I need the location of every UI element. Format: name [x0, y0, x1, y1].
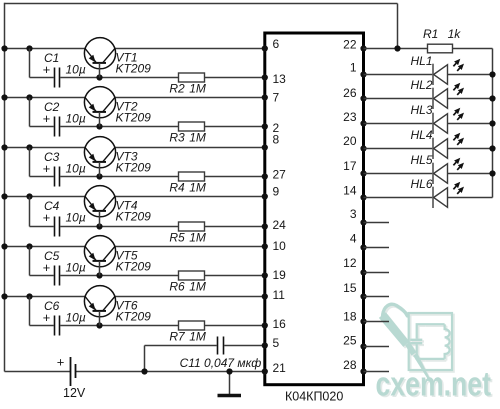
svg-text:1M: 1M: [189, 131, 206, 145]
svg-text:R7: R7: [169, 330, 186, 344]
svg-text:1k: 1k: [448, 27, 462, 41]
svg-text:К04КП020: К04КП020: [285, 390, 343, 404]
svg-text:cxem.net: cxem.net: [376, 366, 492, 404]
svg-text:HL4: HL4: [410, 128, 432, 142]
svg-text:4: 4: [350, 232, 357, 246]
svg-text:10µ: 10µ: [66, 211, 86, 225]
svg-text:10µ: 10µ: [66, 311, 86, 325]
svg-text:С11 0,047 мкф: С11 0,047 мкф: [180, 356, 262, 370]
svg-text:HL5: HL5: [410, 153, 432, 167]
svg-text:16: 16: [273, 317, 287, 331]
svg-text:R5: R5: [169, 231, 185, 245]
svg-text:KT209: KT209: [116, 210, 152, 224]
svg-text:25: 25: [343, 334, 357, 348]
svg-text:5: 5: [273, 336, 280, 350]
svg-text:27: 27: [273, 168, 287, 182]
svg-text:10µ: 10µ: [66, 63, 86, 77]
svg-text:10µ: 10µ: [66, 112, 86, 126]
svg-text:10µ: 10µ: [66, 162, 86, 176]
svg-text:14: 14: [343, 183, 357, 197]
svg-text:1M: 1M: [189, 181, 206, 195]
svg-text:R1: R1: [423, 27, 438, 41]
svg-text:3: 3: [350, 207, 357, 221]
svg-text:24: 24: [273, 218, 287, 232]
svg-text:HL6: HL6: [410, 177, 432, 191]
svg-text:15: 15: [343, 281, 357, 295]
svg-text:11: 11: [273, 288, 286, 302]
svg-text:+: +: [43, 310, 51, 325]
svg-text:9: 9: [273, 184, 280, 198]
svg-text:1M: 1M: [189, 231, 206, 245]
svg-text:8: 8: [273, 132, 280, 146]
svg-text:KT209: KT209: [116, 310, 152, 324]
svg-text:19: 19: [273, 268, 287, 282]
svg-text:28: 28: [343, 358, 357, 372]
svg-text:+: +: [43, 161, 51, 176]
svg-text:HL2: HL2: [410, 78, 432, 92]
svg-text:R3: R3: [169, 131, 185, 145]
svg-text:21: 21: [273, 361, 287, 375]
svg-text:18: 18: [343, 309, 357, 323]
svg-text:26: 26: [343, 86, 357, 100]
svg-text:+: +: [43, 210, 51, 225]
svg-text:KT209: KT209: [116, 111, 152, 125]
svg-text:R2: R2: [169, 82, 185, 96]
svg-text:KT209: KT209: [116, 161, 152, 175]
svg-text:R4: R4: [169, 181, 185, 195]
svg-text:7: 7: [273, 91, 280, 105]
svg-text:1M: 1M: [189, 82, 206, 96]
svg-text:17: 17: [343, 159, 357, 173]
svg-text:22: 22: [343, 37, 357, 51]
svg-text:+: +: [43, 62, 51, 77]
svg-text:23: 23: [343, 110, 357, 124]
svg-text:KT209: KT209: [116, 260, 152, 274]
svg-text:13: 13: [273, 72, 287, 86]
svg-text:12: 12: [343, 256, 357, 270]
svg-text:6: 6: [273, 37, 280, 51]
svg-text:1M: 1M: [189, 330, 206, 344]
svg-text:HL3: HL3: [410, 103, 432, 117]
svg-text:20: 20: [343, 134, 357, 148]
svg-text:+: +: [43, 260, 51, 275]
svg-text:R6: R6: [169, 280, 185, 294]
svg-text:10: 10: [273, 239, 287, 253]
svg-text:1M: 1M: [189, 280, 206, 294]
svg-text:+: +: [57, 354, 65, 369]
svg-text:10µ: 10µ: [66, 261, 86, 275]
svg-text:+: +: [43, 111, 51, 126]
svg-text:KT209: KT209: [116, 62, 152, 76]
svg-text:12V: 12V: [63, 386, 86, 400]
svg-text:HL1: HL1: [410, 54, 432, 68]
svg-text:1: 1: [350, 61, 357, 75]
